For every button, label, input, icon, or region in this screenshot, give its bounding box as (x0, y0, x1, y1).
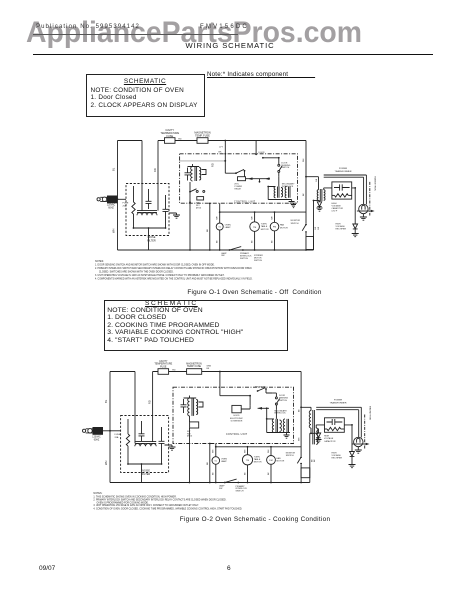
switch S-primary interlock 2 (224, 479, 239, 483)
label turntable motor (261, 224, 269, 231)
svg-text:1. DOOR SENSING SWITCH AND MON: 1. DOOR SENSING SWITCH AND MONITOR SWITC… (95, 264, 215, 267)
svg-text:TABLE: TABLE (254, 458, 261, 461)
wire T4 HV lead (316, 425, 324, 428)
svg-text:SWITCH: SWITCH (291, 223, 299, 225)
relay RY1 contact (235, 169, 245, 176)
fuse F4 magnetron temperature (187, 369, 202, 375)
diode D4 hv rectifier (350, 452, 355, 465)
resistor box monitor (306, 237, 314, 250)
label magnetron (374, 177, 377, 192)
fuse F1 cavity temperature (165, 138, 176, 144)
label magnetron 2 (368, 406, 371, 421)
transformer T3 right coil (285, 187, 290, 198)
wire rail A2 (298, 372, 301, 483)
label hv rectifier 2 (332, 452, 343, 459)
label stirrer switch (254, 255, 263, 262)
junction start sw (189, 191, 191, 193)
label secondary interlock (282, 183, 295, 188)
label WH wire 2 (104, 461, 108, 465)
power supply plug P2 (83, 427, 111, 435)
motor M4 fan (267, 447, 276, 483)
label lamp sw (221, 252, 227, 257)
label relay RY2 (196, 203, 202, 210)
svg-text:1. THIS SCHEMATIC SHOWS OVEN I: 1. THIS SCHEMATIC SHOWS OVEN IN COOKING … (93, 495, 176, 498)
svg-text:LAMP: LAMP (221, 460, 227, 463)
label cavity temperature fuse 2 (154, 360, 172, 369)
wire rail B2 (309, 433, 311, 482)
svg-text:BK: BK (271, 240, 273, 243)
svg-text:TEMP. FUSE: TEMP. FUSE (187, 365, 201, 368)
svg-text:120VAC: 120VAC (107, 204, 116, 207)
label RD mid (211, 163, 215, 167)
svg-text:MOTOR: MOTOR (254, 462, 262, 464)
svg-text:MAGNETRON: MAGNETRON (374, 177, 377, 192)
wire PT feed (305, 176, 318, 190)
control unit dash-dot box CU1 (180, 154, 298, 203)
svg-text:120VAC: 120VAC (92, 436, 101, 439)
wire left rail L1 (117, 141, 119, 251)
transformer T1 secondary (324, 190, 325, 201)
wire T1 bottom lead (318, 199, 320, 201)
svg-text:BK: BK (318, 226, 320, 229)
watermark AppliancePartsPros.com (26, 16, 362, 50)
transformer T6 left coil (272, 419, 281, 433)
junction plug node 2 (109, 430, 121, 432)
svg-text:FAN: FAN (277, 457, 282, 460)
svg-text:FM: FM (273, 227, 276, 229)
transformer T5 secondary coil (196, 400, 198, 415)
power supply plug P1 (97, 196, 118, 204)
notes fig2 (93, 492, 242, 510)
svg-text:TM: TM (253, 227, 256, 229)
svg-text:SWITCH: SWITCH (286, 455, 294, 457)
wire diode branch (313, 200, 320, 202)
svg-text:3. UNIT OPERATING VOLTAGE IS 1: 3. UNIT OPERATING VOLTAGE IS 120V AC 60H… (95, 274, 225, 277)
switch S-door sensing 2 (273, 393, 280, 409)
label turntable motor 2 (254, 456, 262, 463)
label WH1 (217, 216, 219, 220)
label M3 (246, 460, 249, 462)
svg-text:LAMP: LAMP (225, 226, 231, 229)
label power relay (235, 184, 243, 191)
wire filament lines 2 (316, 407, 361, 438)
relay coil box RY3 (190, 416, 199, 428)
transformer T1 primary (317, 190, 318, 201)
model number text (200, 24, 249, 31)
wire filament lines (324, 175, 367, 205)
label M1 (253, 227, 256, 229)
svg-text:BK: BK (244, 472, 246, 475)
motor M2 fan (270, 212, 279, 250)
label BL wire 2 (104, 399, 108, 403)
label OL (218, 227, 222, 229)
svg-text:BK: BK (298, 409, 300, 412)
ground D3 (316, 440, 322, 443)
svg-text:TABLE: TABLE (261, 225, 268, 228)
ground noise filter (173, 215, 180, 218)
label M2 (273, 227, 276, 229)
svg-text:RD: RD (178, 139, 182, 141)
wire CU drop 2 (209, 443, 211, 483)
svg-text:POWER: POWER (339, 168, 348, 170)
wire top edge of supply loop (118, 140, 143, 142)
diode D2 hv rectifier (353, 224, 358, 234)
wire branch governor (220, 372, 251, 406)
diode D3 to ground (316, 429, 320, 440)
svg-text:BK: BK (315, 226, 317, 229)
svg-text:RECTIFIER: RECTIFIER (332, 458, 343, 460)
wire door sense link (262, 157, 280, 159)
label BL wire (112, 167, 116, 171)
svg-text:4. COMPONENTS MARKED WITH AN A: 4. COMPONENTS MARKED WITH AN ASTERISK AR… (95, 278, 253, 281)
wire filter riser (157, 141, 159, 211)
capacitor C-HV (334, 184, 350, 190)
svg-text:WH: WH (298, 437, 300, 441)
label lamp sw 2 (219, 484, 225, 489)
transformer T5 primary coil (188, 398, 190, 416)
transformer T4 primary (309, 411, 311, 428)
resistor box monitor 2 (301, 468, 310, 478)
svg-text:BK: BK (217, 240, 219, 243)
label WH3 (271, 216, 273, 220)
wire RY2 drop (189, 201, 191, 250)
svg-text:NOTES:: NOTES: (95, 260, 104, 263)
label DS (259, 152, 266, 154)
lamp L1 oven lamp (216, 212, 223, 250)
label LVT (219, 147, 224, 149)
label power transformer (335, 168, 352, 173)
fuse F2 magnetron temperature (197, 138, 208, 144)
svg-text:20A: 20A (115, 436, 119, 439)
svg-text:WH: WH (213, 449, 215, 453)
wire right supply branch (141, 141, 143, 212)
capacitor C-NF1 (146, 189, 152, 209)
figure 1 caption (0, 289, 464, 296)
resistor R-HV (332, 194, 352, 197)
label BK rail 2 (311, 459, 316, 462)
svg-text:RD: RD (211, 163, 215, 167)
relay RY1 coil box (238, 177, 246, 181)
label BK drop 2 (207, 462, 209, 465)
transformer T3 left coil (274, 187, 282, 198)
svg-text:WH: WH (303, 158, 305, 162)
wire top edge supply 2 (110, 371, 135, 373)
label short switch (255, 386, 266, 388)
capacitor C-LVT (185, 168, 191, 181)
switch S-primary interlock (229, 247, 244, 251)
note box 2 (104, 300, 288, 351)
wire magnetron ground lead 2 (357, 447, 359, 450)
switch S-monitor 2 (297, 456, 302, 464)
ground hv rectifier (352, 234, 359, 237)
capacitor C-NF2 (163, 195, 169, 228)
svg-text:SWITCH: SWITCH (279, 400, 287, 402)
wire magnetron arrow 2 (352, 443, 370, 446)
label WH6 (268, 449, 270, 453)
svg-text:FAN: FAN (280, 224, 285, 227)
svg-text:FUSE: FUSE (115, 434, 121, 436)
svg-text:0.92 F: 0.92 F (332, 211, 338, 213)
label BK rail (315, 226, 320, 229)
svg-text:(RY2): (RY2) (196, 207, 202, 209)
capacitor C-HV2 (327, 419, 343, 425)
wire top bus (158, 140, 306, 142)
note box 1 (86, 74, 205, 117)
svg-text:2. PRIMARY INTERLOCK SWITCH AN: 2. PRIMARY INTERLOCK SWITCH AND SECONDAR… (95, 267, 252, 270)
transformer T2 secondary coil (199, 168, 201, 181)
svg-text:FILTER: FILTER (142, 473, 151, 476)
svg-text:TM: TM (246, 460, 249, 462)
label BK4 (213, 472, 215, 475)
svg-text:FM: FM (269, 460, 272, 462)
wire HV out 2 (344, 424, 353, 452)
ground magnetron (360, 217, 367, 220)
svg-text:WH: WH (252, 216, 254, 220)
svg-text:CONTROL UNIT: CONTROL UNIT (226, 433, 248, 436)
wire filter bottom join (133, 227, 167, 250)
capacitor C-NF3 (139, 421, 145, 441)
label BK6 (268, 472, 270, 475)
svg-text:BL: BL (112, 167, 116, 171)
svg-text:WH: WH (268, 449, 270, 453)
component bracket T2 (202, 170, 207, 175)
label monitor switch 2 (286, 453, 296, 458)
svg-text:4. CONDITION OF OVEN: DOOR CLO: 4. CONDITION OF OVEN: DOOR CLOSED, COOKI… (93, 507, 242, 510)
svg-text:SWITCH: SWITCH (236, 491, 244, 493)
junction top bus node A (224, 140, 226, 142)
wire branch to relay (224, 141, 236, 174)
wire T3 leads (267, 177, 291, 200)
svg-text:CAPACITOR: CAPACITOR (324, 440, 336, 443)
label fan motor (280, 224, 288, 230)
wire T4 bottom lead (310, 428, 312, 434)
switch S-door sensing (278, 158, 282, 177)
transformer T2 primary coil (191, 167, 193, 182)
label WH4 (213, 449, 215, 453)
svg-text:DOOR: DOOR (259, 152, 266, 154)
control unit dash-dot box CU2 (173, 387, 294, 443)
component bracket T5 (199, 402, 204, 407)
footer page number (227, 565, 231, 572)
wire motor feed bus (219, 203, 306, 213)
label BK drop (207, 229, 209, 232)
relay RY4 contact (257, 388, 273, 393)
label hv capacitor 2 (324, 436, 336, 443)
label RD riser (153, 168, 157, 172)
wire magnetron ground lead (362, 214, 364, 217)
svg-text:NOTES:: NOTES: (93, 492, 102, 495)
junction top bus node B (219, 371, 221, 373)
svg-text:MAGNETRON: MAGNETRON (368, 406, 371, 421)
resistor R-NF1 (132, 186, 135, 228)
svg-text:TEMP. FUSE: TEMP. FUSE (195, 134, 210, 137)
transformer T1 core (320, 189, 322, 201)
svg-text:3. UNIT OPERATING VOLTAGE IS 1: 3. UNIT OPERATING VOLTAGE IS 120V AC 60H… (93, 504, 199, 507)
svg-text:RD: RD (172, 370, 176, 372)
svg-text:MOTOR: MOTOR (280, 227, 288, 229)
component box governor (232, 405, 250, 412)
note: indicates component (207, 71, 315, 78)
transformer T2 core (195, 167, 197, 182)
transformer T4 secondary (316, 428, 318, 444)
label CONTROL UNIT (234, 201, 256, 204)
figure 2 caption (0, 516, 464, 523)
label CONTROL UNIT 2 (226, 433, 248, 436)
wire arrow link 2 (258, 407, 269, 419)
svg-text:CONTROL UNIT: CONTROL UNIT (234, 201, 256, 204)
wire RY3 drop (189, 428, 191, 483)
svg-text:BK: BK (303, 193, 305, 196)
magnetron V2 (354, 437, 363, 446)
label governor (230, 415, 243, 422)
label WH wire (112, 229, 116, 233)
svg-text:MOTOR: MOTOR (277, 461, 285, 463)
label M4 (269, 460, 272, 462)
motor M1 turntable (250, 212, 260, 250)
svg-text:VOLTAGE: VOLTAGE (332, 454, 342, 457)
transformer T5 core (192, 398, 194, 416)
hv capacitor box 2 (325, 418, 345, 433)
resistor R-NF2 (126, 419, 129, 464)
title WIRING SCHEMATIC (0, 41, 460, 50)
label BK2 (252, 240, 254, 243)
label magnetron temperature fuse 2 (186, 362, 202, 368)
svg-text:SW.: SW. (221, 255, 225, 257)
wire T2 top lead (188, 164, 200, 202)
publication number text (36, 24, 140, 31)
boundary magnetron dash 2 (364, 415, 366, 449)
label relay RY3 (187, 431, 193, 438)
wire diode branch 2 (310, 432, 319, 434)
svg-text:BK: BK (207, 229, 209, 232)
noise filter dashed box NF2 (121, 416, 169, 473)
ground magnetron 2 (355, 450, 362, 453)
ground noise filter 2 (169, 447, 176, 450)
svg-text:WH: WH (271, 216, 273, 220)
svg-text:CAPACITOR: CAPACITOR (332, 207, 344, 210)
wire bottom bus 2 (110, 482, 310, 484)
switch S-start blade (190, 189, 205, 193)
wire T6 leads (266, 409, 290, 432)
wire filter bottom join 2 (127, 463, 162, 482)
svg-text:SWITCH: SWITCH (254, 260, 262, 262)
wire T1 HV lead (324, 188, 332, 190)
svg-text:BK: BK (252, 240, 254, 243)
label hv capacitor (332, 203, 344, 213)
label NOISE FILTER (147, 236, 156, 242)
footer date (39, 565, 55, 572)
svg-text:BK: BK (314, 459, 316, 462)
wire HV out (352, 187, 356, 224)
svg-text:BL: BL (104, 399, 108, 403)
label magnetron temperature fuse (194, 132, 210, 138)
svg-text:WH: WH (217, 216, 219, 220)
svg-text:INTERLOCK: INTERLOCK (282, 186, 294, 188)
svg-text:MOTOR: MOTOR (261, 229, 269, 231)
svg-text:60HZ: 60HZ (108, 208, 114, 210)
label monitor switch (291, 220, 301, 225)
relay coil box RY2 (197, 197, 204, 200)
label secondary interlock 2 (274, 409, 287, 414)
wire left rail L2 (109, 372, 111, 483)
wire T5 top lead (184, 396, 197, 399)
label RD (178, 139, 182, 141)
wire CU drop (209, 203, 211, 251)
svg-text:FUSE: FUSE (166, 135, 173, 138)
svg-text:LVT: LVT (219, 147, 224, 149)
ground CU corner (291, 203, 296, 208)
svg-text:VOLTAGE: VOLTAGE (332, 204, 342, 207)
svg-text:WH: WH (104, 461, 108, 465)
boundary magnetron dash (369, 182, 371, 216)
inductor L-NF1 coil (137, 211, 157, 216)
header rule top (33, 33, 238, 36)
wire door sense feed (255, 141, 257, 156)
svg-text:SHORT SW: SHORT SW (255, 386, 266, 388)
noise filter dashed box NF1 (126, 184, 169, 236)
svg-text:BK: BK (311, 459, 313, 462)
svg-text:60HZ: 60HZ (94, 440, 100, 442)
ground D1 (317, 208, 323, 211)
inductor L-NF2 coil (135, 442, 156, 447)
wire arrow link (246, 177, 271, 182)
svg-text:POWER: POWER (334, 400, 343, 402)
svg-text:WH: WH (244, 449, 246, 453)
wire filter ground stub 2 (165, 445, 173, 447)
wire filter ground stub (169, 213, 177, 215)
resistor R-HV2 (325, 427, 345, 430)
wire filter riser 2 (152, 372, 154, 442)
label oven lamp 2 (221, 458, 227, 463)
ground control unit 2 (284, 433, 290, 439)
svg-text:RECTIFIER: RECTIFIER (336, 229, 347, 231)
wire rail B (313, 201, 315, 251)
header rule bottom (33, 54, 433, 55)
svg-text:RD: RD (153, 168, 157, 172)
label primary interlock switch (240, 252, 252, 260)
svg-text:SWITCH: SWITCH (240, 258, 248, 260)
label power transformer 2 (330, 400, 347, 405)
svg-text:2. PRIMARY INTERLOCK SWITCH AN: 2. PRIMARY INTERLOCK SWITCH AND SECONDAR… (93, 499, 226, 502)
svg-text:OVEN IS PROGRAMMED FOR COOKING: OVEN IS PROGRAMMED FOR COOKING MODE. (97, 501, 149, 504)
label 120VAC 60HZ (107, 204, 116, 210)
notes fig1 (95, 260, 253, 280)
svg-text:BK: BK (207, 462, 209, 465)
label FA (315, 178, 318, 181)
label FUSE 20A (123, 203, 129, 208)
transformer T4 core (313, 410, 315, 444)
label BK1 (217, 240, 219, 243)
fuse F3 cavity temperature (158, 369, 169, 375)
label door sensing switch (281, 162, 290, 169)
switch S-monitor (302, 224, 307, 233)
svg-text:BK: BK (213, 472, 215, 475)
label RD 2 (172, 370, 176, 372)
wire right supply branch 2 (134, 372, 136, 444)
label BK3 (271, 240, 273, 243)
label FUSE 20A 2 (115, 434, 121, 439)
magnetron V1 (359, 204, 368, 213)
wire rail A (303, 141, 306, 251)
svg-text:BK: BK (268, 472, 270, 475)
wire PT feed 2 (300, 406, 311, 410)
label OL 2 (214, 461, 218, 463)
label 120VAC 60HZ 2 (92, 436, 101, 442)
label cavity temperature fuse (160, 129, 179, 138)
svg-text:RD: RD (147, 400, 151, 404)
wire top bus 2 (153, 371, 302, 373)
label RD riser 2 (147, 400, 151, 404)
